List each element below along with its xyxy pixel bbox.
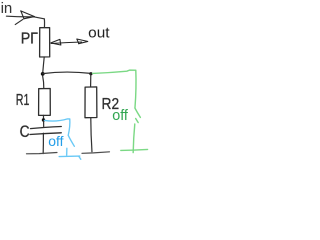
wire junction C to capacitor top plate bbox=[43, 121, 45, 127]
svg-text:in: in bbox=[1, 0, 13, 17]
svg-text:off: off bbox=[48, 133, 63, 149]
resistor R2 body bbox=[85, 87, 97, 118]
ground rail under capacitor bbox=[26, 152, 57, 153]
green switch blade open bbox=[135, 108, 141, 117]
junction A dot bbox=[41, 72, 45, 76]
green annotation wire from junction B bbox=[92, 70, 136, 108]
green switch lower wire bbox=[133, 124, 135, 153]
svg-text:off: off bbox=[112, 108, 129, 124]
wire input vertical drop to potentiometer top bbox=[43, 19, 45, 28]
blue bottom link line bbox=[59, 155, 80, 158]
wire input horizontal bbox=[6, 16, 44, 19]
wire R2 bottom lead bbox=[91, 118, 92, 152]
blue annotation wire from junction C bbox=[44, 119, 69, 135]
terminal bar under R2 bbox=[82, 152, 110, 154]
green bottom bar bbox=[121, 149, 148, 150]
wire junction B down to R2 bbox=[90, 74, 92, 87]
wire horizontal bus junction A to junction B bbox=[43, 72, 91, 74]
svg-text:C: C bbox=[20, 123, 30, 141]
blue switch blade open bbox=[68, 135, 74, 146]
capacitor C top plate bbox=[30, 126, 61, 128]
wiper arrow left head bbox=[51, 39, 61, 45]
wire potentiometer bottom to junction A bbox=[43, 57, 44, 72]
resistor R1 body bbox=[39, 88, 51, 115]
svg-text:РГ: РГ bbox=[21, 30, 38, 47]
potentiometer РГ body bbox=[40, 28, 50, 57]
junction C dot bbox=[42, 118, 45, 121]
svg-text:R1: R1 bbox=[16, 92, 30, 109]
junction B dot bbox=[89, 72, 92, 75]
wiper arrow right head bbox=[77, 39, 88, 44]
blue switch lower contact bbox=[66, 148, 68, 155]
svg-text:out: out bbox=[88, 24, 110, 41]
blue end tick bbox=[79, 156, 81, 159]
input sketch arrow bbox=[15, 11, 34, 25]
wiper double arrow shaft bbox=[51, 42, 81, 44]
wire capacitor bottom lead bbox=[42, 133, 44, 153]
capacitor C bottom plate bbox=[30, 133, 61, 135]
green switch contact serif bbox=[136, 119, 139, 123]
wire R1 bottom to junction C bbox=[42, 115, 44, 119]
wire junction A down to R1 bbox=[43, 76, 44, 89]
